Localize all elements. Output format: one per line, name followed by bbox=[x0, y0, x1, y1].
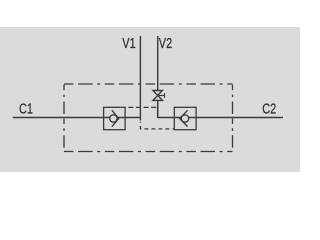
check valve CV1 ball bbox=[110, 115, 117, 122]
wire: C1 main line from port C1 to node V1-junction bbox=[13, 117, 141, 119]
enclosure boundary, left edge bbox=[63, 85, 65, 152]
check valve CV1 body bbox=[104, 107, 126, 129]
check valve CV1 seat bbox=[112, 110, 119, 127]
pilot line (dashed) from node V1-junction to CV2 pilot port bbox=[140, 122, 174, 129]
enclosure boundary, bottom edge bbox=[64, 151, 233, 153]
wire: V2 lower segment, corner and C2 main line to port C2 bbox=[158, 100, 283, 117]
check valve CV2 seat bbox=[180, 110, 188, 126]
check valve CV2 ball bbox=[181, 115, 188, 122]
svg-text:V1: V1 bbox=[122, 34, 135, 51]
enclosure boundary (dash-dot valve body outline), top edge bbox=[64, 83, 233, 85]
gray drawing panel bbox=[0, 27, 300, 172]
shut-off valve SV1 stem end bar bbox=[164, 93, 166, 98]
wire: V2 vertical line upper segment bbox=[157, 36, 159, 91]
check valve CV2 body bbox=[174, 107, 196, 129]
svg-text:C2: C2 bbox=[262, 100, 276, 117]
pilot line (dashed) from V2 line to CV1 pilot port bbox=[126, 106, 158, 108]
svg-text:V2: V2 bbox=[159, 34, 172, 51]
wire: V1 vertical line bbox=[139, 36, 141, 121]
svg-text:C1: C1 bbox=[19, 100, 33, 117]
shut-off valve SV1 on V2 line (hourglass) bbox=[153, 91, 162, 101]
shut-off valve SV1 stem bbox=[159, 95, 165, 97]
enclosure boundary, right edge bbox=[232, 85, 234, 152]
